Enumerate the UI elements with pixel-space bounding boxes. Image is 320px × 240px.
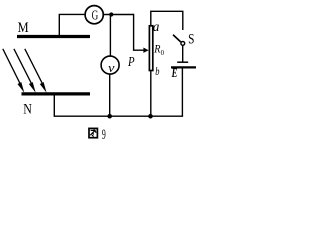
label R0 xyxy=(153,42,164,57)
svg-text:N: N xyxy=(23,102,32,118)
wire: voltmeter down to bottom rail xyxy=(109,74,111,116)
caption character 图 xyxy=(89,128,97,137)
plate N xyxy=(22,92,91,95)
switch S lever xyxy=(173,35,181,42)
svg-text:0: 0 xyxy=(161,48,165,57)
svg-text:P: P xyxy=(127,55,135,70)
svg-text:b: b xyxy=(155,64,159,78)
bottom rail wire xyxy=(54,115,184,117)
rheostat R0 body xyxy=(149,26,152,71)
wire: battery to bottom rail xyxy=(181,68,183,116)
junction dot voltmeter-rail xyxy=(107,114,112,119)
svg-text:G: G xyxy=(92,8,99,23)
wire: galvanometer to wiper branch corner xyxy=(104,14,134,16)
label P xyxy=(127,55,135,70)
voltmeter V xyxy=(101,56,119,75)
svg-text:9: 9 xyxy=(102,127,106,143)
svg-text:S: S xyxy=(188,31,194,47)
wire: wiper arm to rheostat xyxy=(134,14,149,53)
junction dot rail-rheostat xyxy=(148,114,153,119)
label M xyxy=(18,20,29,36)
galvanometer G xyxy=(85,6,103,24)
label N xyxy=(23,102,32,118)
wire: junction down to voltmeter xyxy=(109,15,111,57)
switch S hinge circle xyxy=(181,42,185,46)
wire: plate N down to bottom rail xyxy=(53,95,55,116)
svg-text:v: v xyxy=(108,60,115,75)
wire: switch to battery xyxy=(182,45,184,61)
wire: rheostat bottom to rail xyxy=(150,71,152,117)
label S xyxy=(188,31,194,47)
battery E bottom plate (long) xyxy=(171,66,196,68)
svg-text:M: M xyxy=(18,20,29,36)
light ray arrow 1 xyxy=(3,49,25,93)
battery E top plate (short) xyxy=(177,61,188,63)
light ray arrow 3 xyxy=(25,49,47,93)
label a xyxy=(153,20,160,35)
caption number 9 xyxy=(102,127,106,143)
svg-text:a: a xyxy=(153,20,160,35)
label E xyxy=(171,65,178,80)
light ray arrow 2 xyxy=(14,49,36,93)
wire: plate M up to galvanometer xyxy=(59,14,84,35)
plate M xyxy=(17,35,90,38)
junction dot above voltmeter xyxy=(109,12,113,16)
label b xyxy=(155,64,159,78)
svg-text:E: E xyxy=(171,65,178,80)
wire: rheostat top to switch xyxy=(151,11,183,30)
